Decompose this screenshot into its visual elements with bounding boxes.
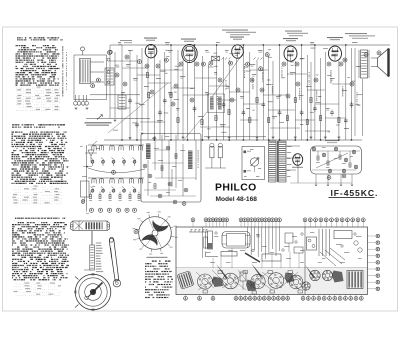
dial face middle ring <box>79 278 107 306</box>
direct view of rotation caption <box>85 122 112 123</box>
small caption left of V1 <box>120 40 132 41</box>
band switch left bus wire <box>86 145 88 212</box>
vertical caption 2 right of table 1 <box>66 51 67 54</box>
IF transformer T1 between V2 and V3 <box>212 56 220 61</box>
chassis: tuning capacitor (hatched) <box>177 271 194 289</box>
power supply diagonal wire <box>316 153 348 168</box>
chassis right compartment: top rect <box>334 231 352 239</box>
chassis: power transformer top view <box>222 232 250 249</box>
bus wire under band switch <box>86 213 89 215</box>
junction dots on heater bus <box>150 44 152 46</box>
power transformer T4 secondary coil <box>279 141 287 182</box>
pin callout 1 <box>91 84 95 88</box>
scale bar mounting ear right <box>107 225 110 228</box>
scale bar mounting ear left <box>71 225 74 228</box>
RF coil box L2 <box>105 68 114 85</box>
chassis right callout column <box>376 234 380 238</box>
parts list table 2 body <box>12 132 15 133</box>
vertical caption right of table 1 <box>62 46 63 49</box>
dial drive drum <box>139 217 172 250</box>
loop wiring <box>91 61 105 63</box>
horizontal link wires <box>110 60 137 62</box>
tone control box <box>81 181 90 197</box>
antenna terminal A <box>81 47 85 51</box>
ground arrows under power section <box>315 184 317 187</box>
chassis: dark blob 3 <box>285 273 295 284</box>
chassis lower band wiring web <box>196 272 214 288</box>
caption cluster above V4 <box>285 31 302 32</box>
schematic bottom bus wire <box>104 139 362 141</box>
vertical caption in oscillator box <box>198 150 199 152</box>
caption near spring <box>96 243 102 244</box>
scattered value labels over schematic <box>268 48 271 51</box>
vertical rotated labels along wires <box>244 63 245 66</box>
chassis: dark blob 1 <box>212 277 223 288</box>
chassis top callout row <box>191 218 195 222</box>
drum caption line <box>147 257 168 258</box>
speaker <box>378 49 389 77</box>
output transformer T3 <box>361 50 368 78</box>
electrolytic capacitor C100B <box>218 147 222 158</box>
switch wafer labels <box>250 148 253 151</box>
junction dots on bottom bus <box>121 139 123 141</box>
filter capacitor labels <box>322 146 326 149</box>
band switch padder resistors row <box>90 194 92 198</box>
dial scale assembly bar <box>73 221 107 231</box>
dial face inner ring <box>85 284 102 301</box>
dial face outer ring <box>75 274 111 310</box>
power supply enclosure box <box>311 146 362 174</box>
wires below power box <box>297 165 299 183</box>
parts list table 1 header <box>17 37 19 38</box>
chassis divider 2 <box>202 227 204 258</box>
RF coil box L3 <box>118 95 126 109</box>
tube socket voltage table 3 header <box>15 218 16 219</box>
band switch wafer 2 hook contacts <box>92 178 96 183</box>
dial cord spring <box>90 245 95 270</box>
electrolytic capacitor C100A <box>210 147 214 158</box>
drum pin callout <box>134 230 138 234</box>
chassis compartment divider <box>304 227 306 295</box>
chassis lower band divider <box>176 267 368 269</box>
pin number callouts on schematic <box>138 60 142 64</box>
wafer 2 contact pins <box>91 187 95 190</box>
loop terminal lugs <box>74 101 78 105</box>
rotation arrow <box>97 115 102 120</box>
band switch wafer 2 rail <box>88 177 144 179</box>
transformer lead wires <box>286 145 300 147</box>
tone control callout <box>81 200 85 204</box>
mid AVC bus wire <box>86 117 150 119</box>
tube V5 audio output <box>329 46 342 61</box>
on-off switch wafer box <box>242 147 265 180</box>
chassis bottom callout leaders <box>185 295 187 297</box>
dial small idler circle <box>85 296 89 300</box>
chassis: small parts between sockets <box>240 272 246 281</box>
parts list table 1 body <box>16 45 19 46</box>
svg-text:PHILCO: PHILCO <box>215 183 257 194</box>
dial caption smudges <box>84 269 91 272</box>
chassis: filter can <box>208 231 213 249</box>
wafer 1 shorting curve wire <box>88 168 145 173</box>
cable label above power box <box>325 140 339 141</box>
chassis: can bracket <box>206 252 219 257</box>
tube V2 IF amplifier <box>182 45 197 63</box>
switch contact square P1 <box>244 151 247 154</box>
chassis: tube socket S5 <box>289 275 303 289</box>
chassis right: small socket S8 <box>302 282 310 290</box>
mechanical notes text block <box>152 261 154 262</box>
oscillator coil (dark) <box>146 144 151 160</box>
chassis: wiring loom vertical lines <box>247 227 249 248</box>
wafer 1 contact pins <box>91 158 95 161</box>
transformer secondary labels <box>287 145 292 148</box>
chassis bottom callout row <box>184 296 188 300</box>
chassis interior wire stubs <box>212 258 214 268</box>
callout circles below power box <box>327 176 331 180</box>
chassis layout outer box <box>176 227 368 295</box>
oscillator pin callouts <box>143 164 147 168</box>
component value labels (smudges) <box>126 64 131 65</box>
chassis: dark diagonal part <box>245 253 260 262</box>
chassis right compartment: diagonal leads <box>325 250 342 264</box>
chassis top callout leaders <box>192 222 194 227</box>
band switch wafer 1 hook contacts <box>92 145 96 150</box>
chassis lower band backdrop <box>177 268 368 294</box>
chassis: misc small parts upper <box>285 233 293 243</box>
power supply inner components <box>317 156 319 160</box>
dial lamp wires <box>204 136 266 138</box>
chassis top band tiny circles <box>215 232 217 234</box>
chassis right: socket S7 <box>322 270 332 280</box>
resistor R cluster <box>146 73 148 78</box>
drum spoke arm 1 <box>141 231 161 248</box>
parts list table 2 dotted leaders <box>34 186 38 187</box>
antenna terminal A2 <box>109 50 113 54</box>
diagonal wire 3 <box>183 112 207 141</box>
band switch wafer 1 rail <box>88 144 144 146</box>
electrolytic lead wires <box>211 158 213 168</box>
chassis right compartment: socket plate <box>307 237 317 250</box>
tube V3 det/AVC <box>232 45 244 58</box>
dial cord anchor wire <box>91 231 93 245</box>
bypass capacitor symbols <box>128 99 132 101</box>
oscillator section inner wires <box>154 136 156 170</box>
tube V1 7A8 converter <box>145 45 157 58</box>
caption cluster above V5 <box>345 33 367 34</box>
wafer 2 pin callouts <box>89 208 93 212</box>
chassis right: dark blob 4 <box>332 271 344 283</box>
chassis: tube socket S2 <box>223 273 239 289</box>
chassis: band switch shaft part <box>189 231 208 233</box>
parts list table 2 header <box>12 124 15 125</box>
rectifier tube V6 <box>293 154 303 166</box>
chassis lower band small parts <box>218 271 223 274</box>
drum hub <box>152 230 158 236</box>
vertical signal wires <box>109 45 111 118</box>
chassis: pointer needle marks <box>216 264 228 279</box>
loop antenna coil L1 <box>80 59 91 84</box>
chassis top band detail smudges <box>206 251 211 254</box>
loop terminal circles right <box>107 58 110 61</box>
drum spoke arm 2 <box>149 217 169 234</box>
wire loop to chassis bus <box>90 94 140 96</box>
pin callout 2 <box>96 78 100 82</box>
parts list table 1 column footer words <box>37 87 41 88</box>
chassis: tube socket S1 <box>198 274 213 289</box>
dial mounting tabs <box>75 277 79 280</box>
svg-text:Model 48-168: Model 48-168 <box>216 196 258 203</box>
loop antenna assembly dashed enclosure <box>74 55 107 100</box>
svg-text:IF-455KC.: IF-455KC. <box>331 188 379 198</box>
switch terminal dot <box>86 166 88 168</box>
rotary switch symbol <box>250 158 258 166</box>
chassis: tube socket S4 <box>268 273 284 289</box>
ground symbols row <box>114 119 117 121</box>
tube socket voltage table 3 body <box>18 222 20 223</box>
chassis: capacitor block <box>221 252 237 257</box>
table 3 dotted leaders <box>24 283 29 284</box>
chassis right: socket S6 <box>310 270 320 280</box>
drum rim ticks and labels <box>171 235 174 238</box>
IF transformer T2 trimmers <box>222 58 224 60</box>
tone coil column (dark) <box>188 151 193 170</box>
second IF trimmers <box>254 58 256 60</box>
top heater bus wire <box>110 44 390 46</box>
chassis: dark blob 2 <box>246 280 256 292</box>
oscillator triode symbol <box>88 150 94 156</box>
oscillator section resistors <box>161 166 163 171</box>
chassis right compartment: vertical bars <box>318 229 320 256</box>
chassis: tube socket S3 <box>251 274 265 288</box>
AVC diagonal wire <box>212 52 244 97</box>
tube V4 1st audio <box>284 46 297 61</box>
trimmer labels in oscillator box <box>152 137 156 140</box>
oscillator section enclosure box <box>141 134 201 203</box>
chassis: IF can rectangle <box>262 254 281 261</box>
pointer lever arm <box>109 237 118 281</box>
drum radial divider lines <box>156 236 161 248</box>
sub-circuit labels <box>80 145 83 148</box>
AVC diagonal wire 2 <box>108 83 168 133</box>
chassis right: output transformer (hatched) <box>347 271 363 289</box>
switch contact square P2 <box>244 170 247 173</box>
second IF transformer dashed box <box>208 94 225 113</box>
chassis right: small circles <box>354 241 358 245</box>
power transformer T4 primary coil <box>269 141 277 182</box>
dial rim notches <box>92 273 95 275</box>
caption cluster above V3 <box>222 30 248 31</box>
power transformer core <box>276 141 278 182</box>
power supply pin callouts <box>312 147 316 151</box>
dial hub and pointer <box>90 289 96 295</box>
wafer 1 curve callout <box>112 170 116 174</box>
